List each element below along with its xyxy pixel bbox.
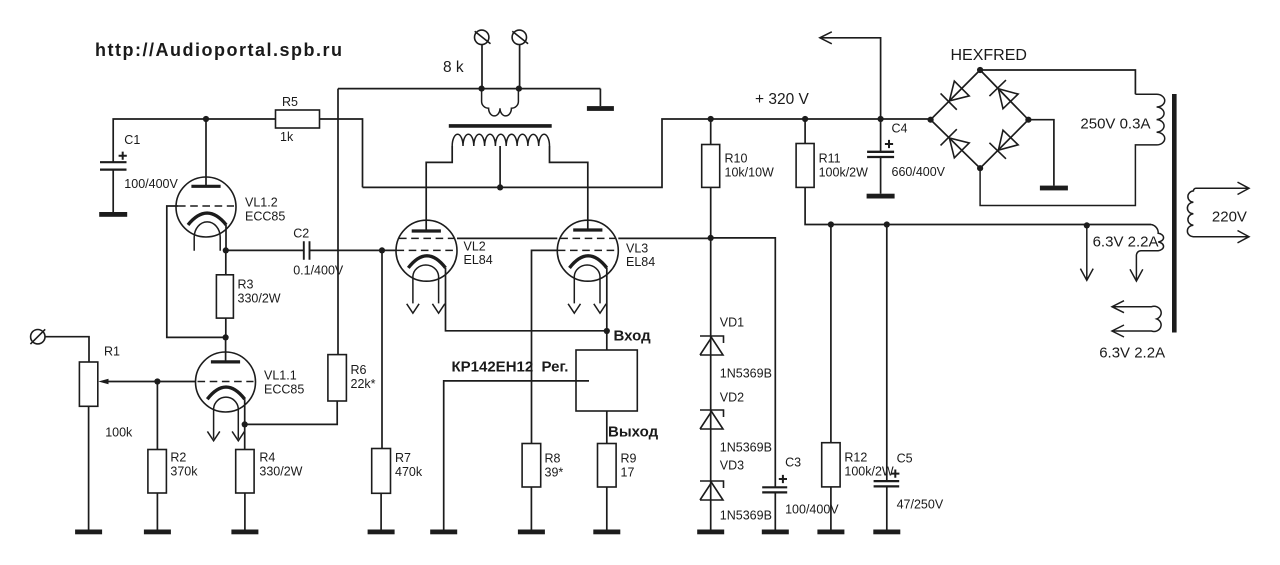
svg-text:HEXFRED: HEXFRED [951,47,1027,64]
svg-text:VL1.1: VL1.1 [264,369,297,383]
VL2 heater arrows [407,304,419,313]
regulator U1 KR142EN12 [576,350,637,411]
ground R7 [368,530,395,535]
zener VD1 [700,336,724,355]
node C1/R5/VL1.2 anode [203,116,209,122]
zener VD2 [700,410,724,429]
svg-text:47/250V: 47/250V [897,498,944,512]
PT core [1172,94,1177,333]
node C5 tap [884,221,890,227]
svg-text:C4: C4 [892,122,908,136]
pentode VL3 [557,220,618,281]
resistor R6 [328,355,347,401]
node VL1.1 cathode / R4 / R6 [242,421,248,427]
wire VL3 grid to R8 [532,250,558,443]
220V arrows [1238,182,1250,194]
svg-text:220V: 220V [1212,209,1247,226]
wire R1 to ground [88,406,90,529]
ground speaker rail [587,106,614,111]
svg-text:КР142ЕН12 Рег.: КР142ЕН12 Рег. [452,359,569,376]
wire VL1.1 cathode lead [244,399,246,424]
VL3 control grid [558,249,618,251]
svg-text:22k*: 22k* [351,377,376,391]
node secondary left [479,86,485,92]
svg-text:C3: C3 [785,456,801,470]
wire VL1.2 grid to VL1.1 anode [167,206,226,337]
node R12 tap [828,221,834,227]
VL1.2 cathode [188,213,226,225]
svg-text:EL84: EL84 [626,255,655,269]
input terminal [31,330,45,344]
6.3V winding 2 [1113,306,1161,331]
svg-text:VD2: VD2 [720,391,744,405]
node R10 top [708,116,714,122]
resistor R11 [796,144,814,188]
svg-text:VL2: VL2 [464,240,486,254]
wire +320V to center tap [363,119,931,187]
svg-text:6.3V 2.2A: 6.3V 2.2A [1099,345,1165,362]
node bridge top [977,67,983,73]
wire R7 to ground [380,493,382,529]
wire bridge right to ground [1028,120,1054,186]
node secondary right [516,86,522,92]
capacitor C3 [762,487,787,492]
svg-text:6.3V 2.2A: 6.3V 2.2A [1093,233,1159,250]
node bridge left [928,117,934,123]
VL1.2 grid [178,205,234,207]
VL1.1 heater [214,397,239,439]
VL2 anode [412,229,441,232]
svg-text:VL3: VL3 [626,242,648,256]
wire regulator output [606,411,608,444]
wire VL1.2 cathode to C2 [226,249,304,251]
svg-text:100k: 100k [105,426,133,440]
resistor R2 [148,450,167,494]
wire screen grids VL2-VL3 [457,237,557,239]
wire 8k rail to R6 [337,89,339,355]
wire grid node to R7 [381,250,383,448]
ground VD3 [697,530,724,535]
wire rail to ground [599,89,601,107]
svg-text:R10: R10 [725,152,748,166]
wire node to R2 [156,382,158,450]
heater arrow 2 [1135,270,1137,280]
output terminal right [512,30,526,44]
resistor R4 [236,450,254,494]
svg-text:100k/2W: 100k/2W [819,166,869,180]
VL1.1 anode [211,360,240,363]
svg-text:+ 320 V: + 320 V [755,91,810,108]
node C2 / R7 / VL2 grid [379,247,385,253]
svg-text:Выход: Выход [608,424,659,441]
wire VL3 cathode down to regulator [606,268,608,350]
wire R9 to ground [606,487,608,530]
ground C5 [873,530,900,535]
wire R12 to ground [830,487,832,530]
svg-text:C5: C5 [897,452,913,466]
wire regulator adj to ground [444,381,589,530]
node bridge right [1025,117,1031,123]
wire C4 to ground [880,157,882,194]
svg-text:1N5369B: 1N5369B [720,509,772,523]
VL3 heater arrows [568,304,580,313]
wire screen line to R10 node [618,237,710,239]
node VL1.2 cathode / R3 / C2 [223,247,229,253]
bridge frame [931,70,1029,168]
svg-text:330/2W: 330/2W [259,465,302,479]
capacitor C2 [304,241,310,259]
VL2 control grid [397,249,457,251]
VL1.2 anode [191,185,220,188]
node wiper / R2 / VL1.1 grid [154,378,160,384]
triode VL1.1 [196,352,256,412]
ground R9 [593,530,620,535]
wire R12 [830,225,832,443]
wire R3 to VL1.1 anode [225,318,227,337]
diode D1 upper-left [941,80,970,109]
svg-text:17: 17 [621,466,635,480]
potentiometer R1 [79,362,97,406]
wire bridge top to 250V winding [980,70,1135,94]
VL3 anode [573,228,602,231]
svg-text:ECC85: ECC85 [264,383,304,397]
node regulator input [604,328,610,334]
wire primary center tap [499,146,501,187]
VL1.1 cathode [207,387,244,399]
wire VL1.2 cathode lead [225,225,227,251]
svg-text:R8: R8 [545,452,561,466]
node heater tap [1084,222,1090,228]
capacitor C4 [880,119,882,152]
VL3 screen grid [560,237,615,239]
resistor R7 [372,449,391,494]
wire R2 to ground [156,493,158,530]
wire primary left end to VL2 anode [426,146,452,231]
svg-text:R4: R4 [259,451,275,465]
wire screen node to VD1 [710,238,712,530]
svg-text:8 k: 8 k [443,59,464,76]
diode D4 lower-right [989,130,1018,159]
ground R12 [817,530,844,535]
VL2 heater [413,265,439,303]
svg-text:R12: R12 [844,451,867,465]
wire screen node to C3 [711,238,776,487]
node C4 top [878,116,884,122]
resistor R8 [522,444,541,488]
wire speaker rail [338,45,600,89]
wire C2 to VL2 grid [310,249,397,251]
node bridge bottom [977,165,983,171]
wire R10 [710,119,712,145]
resistor R12 [822,443,840,487]
OT core [449,124,552,128]
svg-text:R7: R7 [395,451,411,465]
pentode VL2 [396,220,457,281]
ground bridge [1040,186,1068,191]
node R3 / VL1.1 anode / VL1.2 grid [223,334,229,340]
wire R11 to heater line [805,187,1151,224]
VL3 cathode [570,256,607,268]
svg-text:250V 0.3A: 250V 0.3A [1080,116,1150,133]
triode VL1.2 [176,177,236,237]
svg-text:http://Audioportal.spb.ru: http://Audioportal.spb.ru [95,40,343,60]
node R11 top [802,116,808,122]
wire cathode node to R4 [244,424,246,449]
wire input to R1 [45,337,89,362]
resistor R5 [276,110,320,128]
resistor R3 [216,275,233,318]
ground C1 [99,212,127,217]
svg-text:Вход: Вход [614,328,652,345]
wire R6 to VL1.1 cathode [245,401,338,424]
svg-text:R11: R11 [819,152,841,166]
6.3V-2 arrows [1112,301,1124,313]
zener VD3 [700,481,724,500]
svg-text:R1: R1 [104,345,120,359]
ground R1 [75,530,102,535]
diode D3 lower-left [941,129,970,158]
resistor R10 [702,145,720,188]
output terminal left [475,30,489,44]
resistor R9 [598,444,617,488]
VL1.1 heater arrows [207,431,219,440]
svg-text:330/2W: 330/2W [238,292,281,306]
node center tap [497,184,503,190]
ground C3 [762,530,789,535]
wire cathode to R3 [225,250,227,274]
svg-text:100/400V: 100/400V [124,177,178,191]
svg-text:10k/10W: 10k/10W [725,166,775,180]
wire VL1.2 anode lead [205,119,207,186]
OT secondary winding [482,89,519,116]
6.3V winding 1 [1136,225,1163,271]
svg-text:1k: 1k [280,130,294,144]
arrow to preamp supply [821,38,881,119]
wire R4 to ground [244,493,246,530]
VL2 cathode [408,256,445,268]
wire C5 to ground [886,486,888,529]
svg-text:C2: C2 [293,227,309,241]
R1 wiper arrow [106,381,157,383]
wire VL2 cathode to regulator input [446,268,607,331]
wire R10 to screen node [710,187,712,238]
svg-text:1N5369B: 1N5369B [720,367,772,381]
VL1.1 grid [198,381,254,383]
svg-text:VD1: VD1 [720,316,744,330]
node screen supply [708,235,714,241]
svg-text:C1: C1 [124,133,140,147]
VL2 screen grid [399,237,454,239]
capacitor C5 [874,481,900,486]
ground C4 [867,194,895,199]
wire R8 to ground [530,487,532,530]
250V winding [980,94,1165,205]
wire primary right end to VL3 anode [550,146,588,230]
svg-text:VL1.2: VL1.2 [245,196,278,210]
diode D2 upper-right [989,80,1018,109]
wire R5 to +320V line [320,119,363,187]
svg-text:R3: R3 [238,278,254,292]
wire VL1.1 anode lead [225,337,227,361]
svg-text:1N5369B: 1N5369B [720,441,772,455]
svg-text:EL84: EL84 [464,253,493,267]
wire R11 [804,119,806,144]
heater arrow 1 [1086,225,1088,279]
ground adj [430,530,457,535]
svg-text:R2: R2 [170,451,186,465]
ground R2 [144,530,171,535]
wire B+ driver rail [113,119,275,162]
wire C3 to ground [774,492,776,529]
VL1.2 heater [194,222,220,251]
220V primary winding [1187,188,1248,236]
svg-text:R9: R9 [621,452,637,466]
svg-text:ECC85: ECC85 [245,210,285,224]
VL3 heater [574,265,600,303]
svg-text:660/400V: 660/400V [892,165,946,179]
ground R4 [231,530,258,535]
wire node to VL1.1 grid [157,381,195,383]
svg-text:470k: 470k [395,465,423,479]
svg-text:370k: 370k [170,465,198,479]
OT primary winding [452,134,549,146]
ground R8 [518,530,545,535]
wire C1 to ground [112,170,114,212]
svg-text:0.1/400V: 0.1/400V [293,264,344,278]
wire C5 [886,225,888,482]
svg-text:R5: R5 [282,95,298,109]
capacitor C1 [100,162,127,169]
svg-text:39*: 39* [545,466,564,480]
svg-text:VD3: VD3 [720,459,744,473]
svg-text:R6: R6 [351,363,367,377]
